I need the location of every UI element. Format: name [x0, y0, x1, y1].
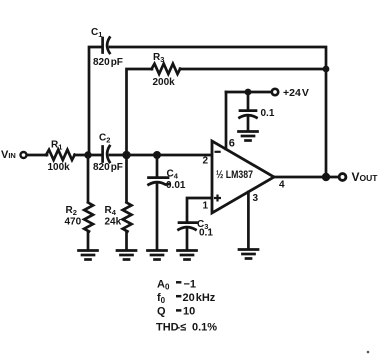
wire R4 to ground: [125, 232, 128, 251]
node E (bypass cap tap): [245, 89, 252, 96]
terminal VIN: [21, 152, 27, 158]
svg-text:3: 3: [253, 193, 259, 204]
wire R2 to ground: [87, 232, 90, 251]
svg-text:100k: 100k: [48, 162, 71, 173]
svg-text:½ LM387: ½ LM387: [216, 169, 253, 181]
svg-text:2: 2: [203, 156, 209, 167]
svg-text:C4: C4: [167, 169, 179, 181]
svg-text:C2: C2: [99, 133, 110, 145]
svg-text:0.1: 0.1: [199, 228, 213, 239]
svg-text:R3: R3: [153, 52, 164, 64]
svg-text:6: 6: [229, 138, 235, 150]
wire pin 1: [187, 198, 212, 222]
resistor R4: [123, 203, 132, 232]
svg-text:R1: R1: [51, 140, 62, 152]
svg-text:0.01: 0.01: [166, 180, 186, 191]
wire C4 to ground: [156, 184, 159, 251]
wire pin 6 from +24V rail: [225, 92, 228, 149]
wire C1 to right rail: [110, 47, 326, 177]
wire node E down to bypass cap: [247, 92, 250, 110]
resistor R2: [84, 203, 93, 232]
capacitor C4: [149, 178, 170, 185]
svg-text:A0−1: A0−1: [157, 279, 196, 292]
capacitor C1: [103, 38, 110, 54]
node B (junction after C2): [122, 151, 130, 159]
svg-text:f020kHz: f020kHz: [157, 292, 216, 305]
op-amp plus sign: [214, 195, 221, 202]
svg-text:+24V: +24V: [283, 87, 309, 99]
ground (R4): [117, 251, 136, 260]
ground (C4): [148, 251, 167, 260]
terminal VOUT: [339, 174, 346, 181]
svg-text:0.1: 0.1: [261, 108, 275, 119]
node C (junction at C4 tap): [153, 151, 161, 159]
wire pin 3 to ground: [247, 192, 250, 249]
wire R3 to right rail: [180, 68, 326, 71]
wire +24V rail: [226, 91, 271, 94]
svg-text:200k: 200k: [153, 77, 176, 88]
resistor R1: [46, 150, 75, 160]
svg-text:R4: R4: [105, 205, 117, 217]
wire VIN to R1: [28, 154, 48, 157]
wire R1 to node A: [75, 154, 102, 157]
wire node B up to R3: [127, 69, 153, 155]
svg-text:R2: R2: [66, 205, 77, 217]
svg-text:THD-≤0.1%: THD-≤0.1%: [156, 322, 217, 334]
node D (R3 joins right rail): [323, 66, 330, 73]
svg-text:820pF: 820pF: [93, 162, 123, 173]
wire node B down to R4: [125, 155, 128, 202]
svg-text:VOUT: VOUT: [352, 170, 379, 184]
svg-text:VIN: VIN: [1, 149, 16, 161]
resistor R3: [152, 64, 181, 74]
wire node A down to R2: [87, 155, 90, 202]
svg-text:C1: C1: [91, 27, 102, 39]
wire C3 to ground: [186, 229, 189, 251]
op-amp U1 half LM387: [212, 141, 274, 213]
svg-text:820pF: 820pF: [93, 57, 123, 68]
svg-text:24k: 24k: [105, 217, 122, 228]
svg-text:1: 1: [203, 201, 209, 212]
capacitor C3: [179, 223, 197, 230]
ground (C3): [178, 251, 197, 260]
wire C2 to op-amp pin 2: [110, 154, 212, 157]
wire output pin 4 to VOUT: [274, 176, 338, 179]
node F (feedback joins output): [322, 173, 330, 181]
wire bypass cap to ground: [247, 117, 250, 132]
node A (junction after R1): [84, 151, 91, 158]
capacitor C2: [103, 146, 110, 162]
wire node C down to C4: [156, 155, 159, 177]
svg-text:4: 4: [279, 180, 285, 191]
op-amp minus sign: [215, 151, 221, 153]
ground (pin 3): [239, 250, 258, 259]
speck bottom right: [367, 351, 370, 354]
ground (R2): [79, 251, 98, 260]
svg-text:470: 470: [65, 217, 82, 228]
ground (bypass): [239, 132, 258, 141]
terminal +24V: [272, 89, 278, 95]
wire node A up to C1 branch: [89, 47, 101, 155]
capacitor 0.1 bypass: [240, 111, 257, 118]
